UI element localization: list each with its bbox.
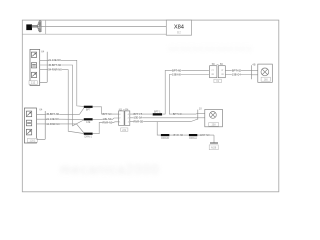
svg-text:232: 232 bbox=[122, 129, 127, 132]
svg-text:BVR-N0: BVR-N0 bbox=[174, 133, 184, 137]
watermark bbox=[60, 46, 253, 177]
wire S1 to J1 pin1 bbox=[93, 107, 119, 114]
splice DRN-A bbox=[189, 134, 197, 136]
splice S2 bbox=[84, 118, 93, 120]
svg-text:180: 180 bbox=[264, 79, 269, 82]
wire fan-out curls bbox=[37, 22, 39, 32]
connector J1 (inline pair) bbox=[119, 111, 130, 126]
wire U1-3 down to splice S3 bbox=[63, 70, 84, 134]
svg-text:BPT: BPT bbox=[86, 108, 91, 111]
svg-text:212: 212 bbox=[31, 81, 36, 85]
connector strip terminals bbox=[39, 21, 41, 32]
connector J2 pin numbers bbox=[211, 70, 224, 76]
wire U2 pin 34 bbox=[37, 123, 62, 125]
svg-text:258: 258 bbox=[212, 124, 217, 127]
wire U2 pin 21 bbox=[37, 118, 62, 120]
lamp U3 (rear lamp unit) bbox=[205, 109, 223, 126]
svg-text:13E: 13E bbox=[86, 121, 91, 124]
svg-text:BPT-N0: BPT-N0 bbox=[172, 68, 182, 72]
lamp U4 (upper right lamp unit) bbox=[258, 64, 273, 82]
svg-text:DRN-A: DRN-A bbox=[189, 137, 197, 140]
svg-text:45-BPT-N0: 45-BPT-N0 bbox=[46, 112, 59, 116]
svg-text:13E-N0: 13E-N0 bbox=[172, 72, 181, 76]
connector: harness entry black square bbox=[26, 24, 32, 30]
wire J2 pin2 to U4 bbox=[225, 74, 251, 76]
component U2 box (lower-left switch unit) bbox=[24, 108, 36, 143]
svg-text:M28: M28 bbox=[211, 146, 217, 150]
splice DRN-B bbox=[161, 134, 169, 136]
svg-text:DRN-1: DRN-1 bbox=[85, 135, 93, 138]
svg-text:21-13E-N0: 21-13E-N0 bbox=[48, 58, 61, 62]
splice S3 bbox=[84, 133, 93, 135]
svg-text:5D: 5D bbox=[212, 63, 215, 66]
wire U1 pin 34 bbox=[40, 69, 63, 71]
connector rail 4B of U4 bbox=[250, 65, 252, 79]
svg-text:RNR-N0: RNR-N0 bbox=[103, 120, 113, 124]
connector rail 64 of U2 bbox=[44, 111, 46, 139]
wire U2 pin 45 bbox=[37, 113, 62, 115]
svg-text:BPT-N2: BPT-N2 bbox=[232, 68, 242, 72]
wire: trunk bus to X84 bbox=[41, 25, 166, 27]
svg-text:4B: 4B bbox=[252, 63, 255, 67]
svg-text:13E-C4: 13E-C4 bbox=[232, 72, 241, 76]
svg-text:5D: 5D bbox=[220, 63, 223, 66]
wire U3 pin stubs bbox=[198, 112, 205, 114]
wire U4 pin stubs bbox=[251, 69, 257, 71]
wire J1 pin3 to U3 pin3 bbox=[130, 119, 198, 122]
svg-text:wwwwwwwwwwwwww: wwwwwwwwwwwwww bbox=[167, 46, 253, 53]
wire tee down to ground chain bbox=[157, 122, 214, 136]
component U1 label box 212 bbox=[29, 81, 37, 85]
svg-text:BPT-N0: BPT-N0 bbox=[103, 112, 113, 116]
splice BPT-1 bbox=[153, 113, 162, 115]
svg-text:BPT-N0: BPT-N0 bbox=[173, 112, 183, 116]
lamp U3 label box bbox=[209, 123, 219, 127]
svg-text:45-BPT-N0: 45-BPT-N0 bbox=[48, 63, 61, 67]
harness trunk band left divider bbox=[45, 20, 47, 34]
svg-text:34-RNR-N0: 34-RNR-N0 bbox=[48, 68, 62, 72]
svg-text:RNR-5D: RNR-5D bbox=[134, 120, 144, 124]
svg-text:34-RNR-N0: 34-RNR-N0 bbox=[46, 122, 60, 126]
wire U2-2 to splice S2 bbox=[61, 118, 84, 120]
wire U1-1 down to splice S1 bbox=[63, 60, 84, 106]
connector rail 10 of U3 bbox=[197, 110, 199, 120]
svg-text:EXP-N0: EXP-N0 bbox=[200, 133, 210, 137]
wire U1-2 down to splice S2 bbox=[63, 65, 84, 126]
connector J1 label box bbox=[121, 128, 128, 132]
connector J2 (inline pair upper right) bbox=[210, 66, 226, 78]
ground M28 bbox=[210, 142, 218, 144]
connector J2 label box bbox=[214, 79, 221, 83]
wire BPT-1 up to J2 pin1 bbox=[163, 70, 209, 114]
splice S1 bbox=[84, 106, 93, 108]
svg-text:mecanica2000: mecanica2000 bbox=[60, 162, 160, 177]
wire chain drop to ground bbox=[213, 135, 215, 143]
svg-text:DRN-B: DRN-B bbox=[161, 137, 169, 140]
component U2 label box 180 bbox=[27, 139, 37, 143]
wire U2-3 to splice S3 bbox=[61, 124, 84, 133]
svg-text:13E-5A: 13E-5A bbox=[134, 116, 143, 120]
svg-text:BPT-1: BPT-1 bbox=[154, 111, 161, 114]
harness trunk band bottom line bbox=[22, 33, 166, 35]
lamp U4 label box bbox=[261, 77, 270, 81]
border frame bbox=[22, 20, 279, 192]
wire U1 pin 21 bbox=[40, 59, 63, 61]
wire J2 pin1 to U4 bbox=[225, 69, 251, 71]
harness bundle bbox=[32, 25, 37, 28]
svg-text:B2: B2 bbox=[177, 31, 181, 35]
svg-text:21-13E-N0: 21-13E-N0 bbox=[46, 117, 59, 121]
svg-text:1202: 1202 bbox=[30, 139, 36, 143]
component U1 box (upper-left switch unit) bbox=[30, 49, 40, 85]
wire J1 pin1 to splice BPT-1 bbox=[130, 113, 153, 115]
connector J1 pin numbers bbox=[119, 114, 129, 124]
wire J2 pin2 down to U3 pin1 bbox=[169, 75, 209, 115]
connector strip rail bbox=[40, 21, 42, 32]
svg-text:BPT-F5: BPT-F5 bbox=[134, 112, 143, 116]
wire U2-1 to splice S1 bbox=[61, 108, 84, 114]
wire S3 to J1 pin3 bbox=[93, 122, 119, 134]
wire J1 pin2 to U3 pin2 bbox=[130, 117, 198, 119]
node X84 box bbox=[166, 20, 191, 35]
connector rail 64 of U1 bbox=[46, 52, 48, 83]
wire U1 pin 45 bbox=[40, 64, 63, 66]
wire S2 to J1 pin2 bbox=[93, 118, 119, 119]
